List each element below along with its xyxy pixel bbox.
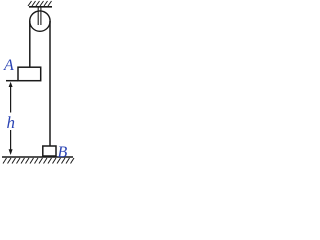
dimension shaft upper <box>10 85 12 113</box>
block A <box>18 67 41 81</box>
pulley wheel <box>30 11 50 31</box>
left rope <box>29 21 31 67</box>
block A bottom extension line <box>6 80 18 82</box>
pulley bracket <box>37 7 39 25</box>
right rope <box>49 21 51 146</box>
dimension shaft lower <box>10 130 12 151</box>
ground line <box>2 156 73 158</box>
ceiling line <box>29 6 52 8</box>
svg-text:A: A <box>3 57 14 74</box>
dimension arrow down <box>9 149 13 155</box>
ceiling hatching <box>28 1 52 6</box>
svg-text:h: h <box>7 113 16 132</box>
ground hatching <box>3 158 74 164</box>
svg-text:B: B <box>58 144 68 161</box>
block B <box>43 146 56 156</box>
dimension arrow up <box>9 82 13 87</box>
